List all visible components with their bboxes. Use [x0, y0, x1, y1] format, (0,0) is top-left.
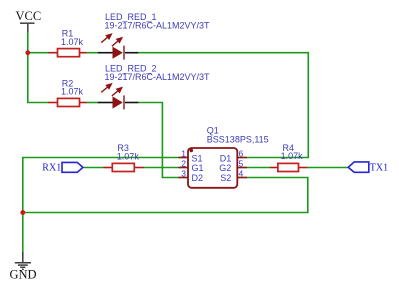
svg-text:19-217/R6C-AL1M2VY/3T: 19-217/R6C-AL1M2VY/3T: [105, 72, 211, 82]
svg-text:D1: D1: [220, 153, 232, 163]
svg-text:1.07k: 1.07k: [61, 37, 84, 47]
svg-text:3: 3: [181, 168, 186, 178]
svg-text:2: 2: [181, 158, 186, 168]
svg-text:1.07k: 1.07k: [61, 87, 84, 97]
svg-text:GND: GND: [10, 268, 37, 282]
svg-text:1: 1: [181, 148, 186, 158]
svg-text:G1: G1: [192, 163, 204, 173]
svg-text:5: 5: [239, 158, 244, 168]
svg-text:BSS138PS,115: BSS138PS,115: [207, 134, 269, 144]
svg-text:S1: S1: [192, 153, 203, 163]
svg-text:1.07k: 1.07k: [117, 152, 140, 162]
svg-text:VCC: VCC: [16, 9, 42, 23]
svg-text:D2: D2: [192, 173, 204, 183]
svg-text:G2: G2: [219, 163, 231, 173]
svg-text:1.07k: 1.07k: [281, 151, 304, 161]
svg-text:TX1: TX1: [370, 163, 388, 174]
svg-text:RX1: RX1: [42, 163, 61, 174]
svg-text:S2: S2: [220, 173, 231, 183]
svg-text:6: 6: [239, 148, 244, 158]
svg-text:19-217/R6C-AL1M2VY/3T: 19-217/R6C-AL1M2VY/3T: [105, 21, 211, 31]
svg-text:4: 4: [239, 168, 244, 178]
